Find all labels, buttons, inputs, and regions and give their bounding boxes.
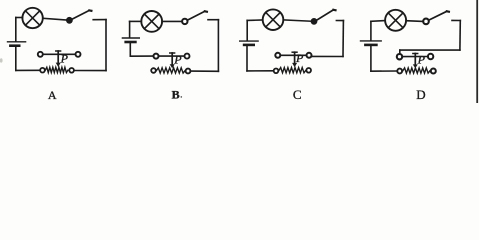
wire D: right side down — [459, 21, 461, 51]
switch S1 lever (circuit A) — [72, 10, 91, 19]
rheostat R2 resistor terminal right — [186, 69, 191, 74]
wire A: lamp to switch S1 — [43, 18, 67, 20]
wire C: left side down to battery B3 — [246, 20, 248, 40]
svg-text:P: P — [173, 53, 182, 67]
rheostat R3 rail — [280, 54, 306, 56]
wire D: bottom to rheostat R4 resistor left terminal — [371, 70, 397, 72]
wire D: battery to bottom-left corner — [370, 46, 372, 71]
rheostat R3 slider P arrow — [292, 52, 297, 67]
wire B: left side down to battery B2 — [129, 21, 131, 37]
switch S3 pivot (circuit C) — [312, 19, 317, 24]
wire A: battery to bottom-left corner — [15, 47, 17, 71]
rheostat R4 rail — [402, 56, 428, 58]
battery B4 (circuit D) — [361, 41, 382, 45]
wire A: switch to top-right corner — [93, 19, 106, 21]
wire B: bottom to rheostat R2 resistor right terminal — [191, 70, 218, 72]
wire B: right side down — [217, 20, 219, 72]
svg-text:C: C — [293, 87, 302, 102]
switch S4 pivot (circuit D) — [423, 19, 429, 25]
rheostat R2 rail — [159, 55, 185, 57]
rheostat R4 resistor terminal right — [431, 69, 436, 74]
switch S3 lever (circuit C) — [317, 10, 336, 20]
wire B: switch to top-right corner — [208, 19, 218, 21]
wire C: to rheostat R3 rail terminal right — [312, 55, 344, 57]
circuit D — [361, 10, 461, 102]
rheostat R4 rail terminal right — [428, 54, 433, 59]
wire A: bottom to rheostat R1 left terminal — [16, 69, 40, 71]
svg-text:P: P — [417, 53, 426, 67]
rheostat R1 slider P arrow — [56, 51, 61, 67]
wire B: lamp to switch S2 — [162, 20, 181, 22]
rheostat R4 (circuit D) — [397, 53, 436, 74]
wire D: upper jog to left over rheostat — [400, 49, 460, 51]
rheostat R2 rail terminal right — [185, 54, 190, 59]
rheostat R1 (circuit A) — [38, 51, 81, 73]
circuit B — [122, 11, 218, 102]
rheostat R1 resistor terminal right — [69, 68, 74, 73]
rheostat R2 rail terminal left — [154, 54, 159, 59]
wire D: left side down to battery B4 — [370, 21, 372, 40]
rheostat R2 resistor terminal left — [151, 68, 156, 73]
wire C: battery to bottom-left corner — [246, 46, 248, 71]
wire C: bottom to rheostat R3 resistor left terminal — [247, 70, 273, 72]
rheostat R3 resistance wire — [279, 68, 306, 73]
rheostat R4 rail terminal left — [397, 54, 402, 59]
wire B: to rheostat R2 rail terminal left — [130, 55, 152, 57]
rheostat R1 resistor terminal left — [40, 68, 45, 73]
rheostat R3 (circuit C) — [274, 51, 312, 73]
switch S4 lever (circuit D) — [429, 11, 449, 20]
wire D: lamp to switch S4 — [406, 20, 422, 23]
switch S1 pivot (circuit A) — [67, 18, 72, 23]
svg-text:D: D — [416, 87, 425, 102]
wire A: left side down to battery B1 — [15, 18, 17, 42]
wire A: right side down — [105, 20, 107, 71]
rheostat R1 rail terminal right — [76, 52, 81, 57]
circuit A — [8, 8, 107, 102]
switch S2 lever (circuit B) — [188, 11, 207, 20]
svg-text:P: P — [60, 52, 69, 66]
rheostat R3 resistor terminal right — [306, 68, 311, 73]
svg-text:A: A — [48, 88, 57, 102]
wire C: switch to top-right corner — [336, 20, 343, 22]
rheostat R4 slider P arrow — [413, 54, 418, 69]
rheostat R1 rail — [43, 53, 76, 55]
rheostat R3 rail terminal right — [307, 53, 312, 58]
lamp L3 (circuit C) — [263, 9, 284, 30]
wire B: top-left corner to lamp L2 — [130, 20, 142, 22]
wire B: battery down to rail level — [129, 43, 131, 56]
rheostat R4 resistor terminal left — [397, 69, 402, 74]
lamp L4 (circuit D) — [385, 10, 406, 31]
svg-text:B: B — [172, 88, 180, 102]
wire A: top-left corner to lamp L1 — [16, 17, 23, 19]
rheostat R3 rail terminal left — [275, 53, 280, 58]
lamp L2 (circuit B) — [141, 11, 162, 32]
battery B2 (circuit B) — [122, 38, 139, 42]
wire A: bottom to rheostat R1 right terminal — [75, 70, 107, 72]
rheostat R2 (circuit B) — [151, 53, 190, 74]
battery B3 (circuit C) — [240, 41, 258, 45]
rheostat R1 resistance wire — [45, 67, 68, 72]
wire C: top-left corner to lamp L3 — [247, 19, 263, 21]
svg-text:P: P — [295, 51, 304, 65]
wire D: drop to rheostat R4 rail terminal left — [399, 50, 401, 54]
page border line right edge — [476, 0, 478, 103]
rheostat R2 slider P arrow — [170, 53, 175, 68]
circuit C — [240, 9, 344, 102]
wire D: switch to top-right corner — [452, 19, 460, 21]
wire C: right side down to rail level — [342, 21, 344, 57]
wire D: top-left corner to lamp L4 — [371, 20, 385, 23]
lamp L1 (circuit A) — [22, 8, 42, 28]
rheostat R2 resistance wire — [156, 68, 185, 73]
rheostat R3 resistor terminal left — [274, 69, 279, 74]
switch S2 pivot (circuit B) — [182, 19, 187, 24]
rheostat R1 rail terminal left — [38, 52, 43, 57]
rheostat R4 resistance wire — [403, 68, 430, 73]
battery B1 (circuit A) — [8, 42, 26, 46]
wire C: lamp to switch S3 — [283, 20, 311, 21]
